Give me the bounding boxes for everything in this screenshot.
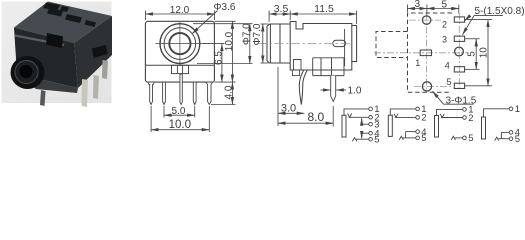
pcb dim 5 line: [427, 8, 459, 10]
svg-text:5-(1.5X0.8): 5-(1.5X0.8): [475, 6, 525, 17]
hole 1: [422, 16, 430, 24]
internal vertical: [344, 29, 346, 66]
terminal 2-1: [369, 116, 373, 120]
wire pin4-4: [501, 131, 509, 133]
top face hole B: [65, 14, 82, 23]
terminal 2-3: [463, 116, 467, 120]
svg-text:5: 5: [467, 51, 478, 57]
pcb dim 3 line: [408, 8, 427, 10]
switch arm 4-5-4: [500, 132, 502, 138]
terminal 2-2: [416, 116, 420, 120]
dim 8.0 line: [278, 122, 333, 124]
center tab inner left: [176, 65, 178, 73]
pin 3 front (center): [180, 74, 182, 105]
crosshair vertical: [179, 22, 181, 66]
dim 3.0 line: [278, 112, 304, 114]
straight pin side: [331, 76, 336, 102]
svg-text:10.0: 10.0: [224, 31, 235, 51]
svg-text:2: 2: [442, 20, 447, 30]
contact hat 5-2: [399, 136, 403, 140]
centerline left column: [426, 14, 428, 92]
hole 2: [422, 82, 431, 91]
barrel middle circle: [164, 28, 196, 60]
front view body: [145, 21, 214, 82]
wire pin3-1: [362, 123, 369, 125]
bottom box middle wall: [331, 58, 333, 76]
terminal 1-4: [509, 107, 513, 111]
pin right: [102, 60, 108, 79]
center tab inner right: [182, 65, 184, 73]
pcb top dim ticks: [407, 5, 409, 13]
svg-text:5: 5: [374, 135, 379, 146]
side view: [258, 22, 357, 76]
terminal 5-2: [416, 136, 420, 140]
centerline slot1 row: [374, 52, 467, 54]
body outline: [290, 22, 352, 71]
pin 4 front: [193, 82, 196, 105]
svg-text:12.0: 12.0: [170, 5, 190, 16]
slot label leader underline: [474, 15, 503, 17]
connector top face: [14, 2, 112, 44]
wire pin1-1: [344, 109, 369, 115]
dim 6.5 line: [221, 44, 223, 83]
right face hole: [92, 45, 108, 58]
hole label leader: [433, 91, 444, 104]
plug bar 3: [435, 116, 439, 138]
dim 5.0 line: [164, 114, 195, 116]
top rear block A: [43, 3, 60, 11]
terminal 5-4: [509, 137, 513, 141]
svg-text:3.0: 3.0: [281, 103, 296, 115]
bent pin side: [299, 70, 307, 105]
dia3.6 leader: [192, 11, 218, 34]
wire pin1-4: [484, 109, 510, 117]
dim dia7.0 ext bottom: [197, 63, 253, 65]
wire pin4-2: [406, 131, 416, 133]
front view: [145, 21, 214, 82]
dim 1.0 arrows: [321, 89, 331, 91]
svg-text:3.5: 3.5: [274, 3, 289, 15]
pin 2 front: [163, 82, 166, 105]
terminal 1-1: [369, 107, 373, 111]
bottom box left wall: [312, 58, 314, 76]
terminal 3-1: [369, 122, 373, 126]
wire pin4-1: [362, 132, 369, 134]
schematic 4 (pins 1,4,5): [482, 109, 510, 141]
plug bar 4: [482, 117, 486, 139]
slot 4: [454, 67, 464, 72]
dim 12.0 line: [145, 13, 214, 15]
centerline hole1 row: [409, 19, 441, 21]
dim 4.0 ext: [211, 104, 236, 106]
svg-text:5: 5: [446, 77, 451, 87]
pin dark: [40, 90, 46, 106]
top face hole C: [85, 20, 97, 27]
contact hat 5-3: [451, 136, 455, 140]
dim 3.5 line: [269, 13, 290, 15]
dim 10.0b line: [151, 129, 209, 131]
barrel outer circle: [160, 24, 200, 64]
front face top highlight: [15, 36, 64, 46]
pcb layout: [374, 13, 467, 92]
pin light 1: [82, 79, 89, 107]
svg-text:6.5: 6.5: [213, 51, 224, 65]
svg-text:5.0: 5.0: [172, 106, 186, 117]
contact V 1: [348, 113, 352, 117]
barrel inner circle: [169, 33, 190, 54]
barrel ring: [15, 61, 38, 84]
centerline right column: [458, 13, 460, 92]
dim 10.0 line: [231, 21, 233, 82]
hole label underline: [444, 103, 474, 105]
svg-text:Φ7.0: Φ7.0: [241, 23, 252, 45]
terminal 4-2: [416, 130, 420, 134]
pin light 2: [93, 75, 99, 99]
wire pin2-3: [441, 117, 463, 119]
wire pin2-2: [395, 116, 416, 118]
svg-text:5: 5: [442, 0, 448, 10]
terminal 4-1: [369, 131, 373, 135]
top face hole A: [47, 8, 63, 17]
dim dia7.0 ext top: [193, 23, 253, 25]
schematic 3 (pins 1,2,5): [435, 109, 463, 139]
dim 5 vert line: [475, 39, 477, 70]
bottom box base: [313, 75, 344, 77]
dim dia7.0 side line: [262, 24, 264, 63]
plug bar 1: [342, 115, 346, 137]
svg-text:11.5: 11.5: [314, 3, 334, 15]
front view ledge line: [145, 64, 214, 66]
left foot: [292, 70, 299, 76]
dim 10.0b ext lines: [150, 106, 152, 132]
dim 8.0 ext: [332, 106, 334, 127]
barrel front inner: [269, 24, 271, 63]
wire pin5-1: [356, 138, 369, 140]
dim 10 vert line: [487, 20, 489, 86]
dim dia7.0 line: [249, 24, 251, 64]
wire pin5-4: [498, 138, 509, 140]
slot label leader: [463, 16, 475, 35]
dim 10 vert exts: [465, 19, 492, 21]
svg-text:2: 2: [468, 113, 473, 124]
dim 6.5 ext: [203, 43, 225, 45]
wire pin2-1: [349, 116, 369, 118]
svg-text:3: 3: [442, 35, 447, 45]
wire pin1-3: [437, 109, 463, 115]
center tab housing: [172, 65, 189, 73]
svg-text:Φ3.6: Φ3.6: [214, 2, 236, 13]
svg-text:5: 5: [515, 134, 520, 145]
right tab: [352, 26, 357, 62]
dim 10.0 ext top: [214, 20, 235, 22]
svg-text:1: 1: [515, 104, 520, 115]
schematic 1 (pins 1-5): [342, 109, 369, 141]
dim 12.0 ext lines: [144, 11, 146, 21]
bottom box right wall: [343, 58, 345, 76]
schematic 2 (pins 1,2,4,5): [388, 109, 416, 140]
contact V 2: [394, 114, 398, 118]
svg-text:1.0: 1.0: [348, 86, 362, 97]
svg-text:2: 2: [421, 113, 426, 124]
barrel front outer: [267, 24, 270, 63]
contact hat 5-4: [495, 137, 499, 141]
crosshair horizontal: [156, 43, 205, 45]
barrel outer: [11, 56, 45, 89]
bottom box divider: [320, 58, 322, 76]
wire pin5-3: [455, 137, 463, 139]
slot 1: [420, 50, 431, 56]
svg-text:10.0: 10.0: [169, 119, 191, 131]
dim 4.0 line: [231, 82, 233, 104]
barrel step: [279, 24, 281, 63]
barrel top line: [270, 23, 291, 25]
barrel hole: [20, 65, 33, 78]
centerline side: [258, 43, 352, 45]
centerline hole2 row: [414, 85, 452, 87]
dim 5.0 ext lines: [163, 106, 165, 118]
top rear block B: [60, 6, 69, 12]
svg-text:Φ7.0: Φ7.0: [252, 23, 263, 45]
svg-text:10: 10: [478, 47, 489, 59]
slot label leader 2: [465, 16, 470, 21]
contact hat 5-1: [352, 138, 357, 142]
terminal 1-2: [416, 107, 420, 111]
terminal 1-3: [463, 108, 467, 112]
pcb body dashed outline: [408, 13, 453, 92]
photo of jack connector: [2, 2, 113, 108]
internal ledge: [313, 57, 345, 59]
wire pin5-2: [403, 137, 416, 139]
connector right face: [74, 16, 112, 88]
pin 1 front: [148, 82, 154, 105]
dim 11.5 line: [290, 13, 356, 15]
contact V 3: [440, 114, 444, 118]
bump above bottom: [294, 60, 302, 71]
slot 5: [454, 83, 464, 88]
switch arm 4-5: [361, 133, 363, 138]
dim 5 vert exts: [465, 38, 480, 40]
hole 3: [455, 47, 464, 56]
svg-text:5: 5: [468, 133, 473, 144]
svg-text:1: 1: [415, 58, 420, 68]
slot 3: [454, 36, 464, 41]
pin 5 front: [205, 82, 213, 105]
dim dia7.0 side ext: [261, 23, 269, 25]
barrel bottom line: [270, 62, 291, 64]
side dim ext lines top: [268, 11, 270, 23]
svg-text:5: 5: [421, 133, 426, 144]
svg-text:3: 3: [415, 0, 421, 10]
terminal 4-4: [509, 131, 513, 135]
svg-text:4: 4: [445, 60, 450, 70]
svg-text:4.0: 4.0: [224, 85, 235, 99]
connector front face: [14, 28, 78, 89]
wire pin1-2: [390, 109, 416, 115]
plug bar 2: [388, 115, 392, 136]
svg-text:8.0: 8.0: [307, 110, 324, 124]
pcb barrel dashed box: [376, 32, 408, 58]
capsule slot: [333, 40, 346, 46]
switch arm 3-1: [361, 118, 363, 124]
dim 3.0/8.0 ext line: [277, 67, 279, 126]
terminal 5-1: [369, 137, 373, 141]
bottom face shadow: [17, 74, 78, 93]
terminal 5-3: [463, 136, 467, 140]
slot 2: [454, 17, 464, 22]
front face recess: [46, 33, 63, 48]
switch arm 4-5-2: [405, 132, 407, 138]
dim 10.0 ext bottom: [214, 81, 235, 83]
